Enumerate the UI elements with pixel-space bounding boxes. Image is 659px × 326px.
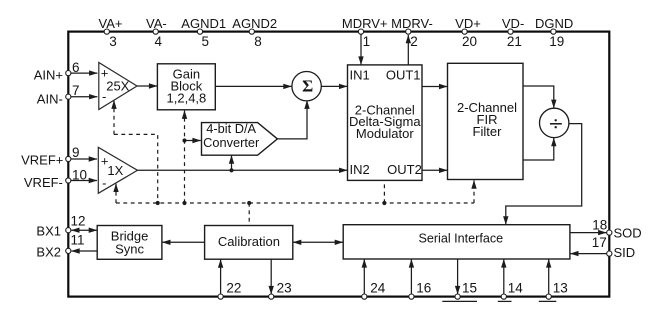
svg-text:17: 17 [592,235,607,250]
svg-text:8: 8 [254,34,262,49]
summer node [292,72,321,101]
svg-text:AGND2: AGND2 [232,16,277,31]
svg-text:4: 4 [155,34,163,49]
svg-text:22: 22 [226,281,241,296]
dashed wire calibration control to 1X [115,188,117,203]
svg-text:14: 14 [508,281,524,296]
pin 11 BX2 [36,232,84,259]
dashed wire calibration control to 25X [113,105,115,135]
dashed wire elbow to 25X branch [114,134,158,203]
svg-text:VD-: VD- [502,16,524,31]
wire calibration to pin 23 [270,259,272,294]
op-amp 25X [99,63,137,110]
wire D/A output to summer [277,101,307,139]
pin 6 AIN+ [34,60,80,83]
pin 17 SID [592,235,635,260]
pin 7 AIN- [37,83,80,107]
node junction on gain control line [182,138,186,142]
pin 2 MDRV- [391,16,433,49]
dashed wire control bus to FIR filter [473,185,475,203]
4-bit D/A converter U-DA [202,121,278,155]
wire pin 12 BX1 bidirectional to bridge sync [71,229,97,231]
wire VREF branch up to D/A converter bottom [231,155,233,170]
wire FIR top output to divider [523,86,554,108]
wire FIR bottom output to divider [523,138,554,160]
svg-text:MDRV-: MDRV- [391,16,433,31]
node junction on VREF line to D/A [229,168,233,172]
svg-text:15: 15 [462,281,477,296]
pin 16 [409,281,432,300]
pin 24 [362,281,386,300]
svg-text:11: 11 [71,232,85,247]
svg-text:AIN-: AIN- [37,92,63,107]
node junction control bus at 25X branch [156,201,160,205]
svg-text:24: 24 [370,281,386,296]
svg-text:IN1: IN1 [350,67,370,82]
wire pin 16 to serial interface [410,259,412,295]
wire pin 22 to calibration [220,260,222,296]
bridge sync block [97,226,162,260]
wire OUT2 to FIR filter [422,169,447,171]
svg-text:20: 20 [462,34,477,49]
wire 25X output to Gain Block [137,85,157,87]
pin 19 DGND [535,16,573,49]
svg-text:Sync: Sync [115,241,144,256]
svg-text:VA-: VA- [146,16,167,31]
svg-text:6: 6 [72,60,80,75]
wire pin 24 to serial interface [363,259,365,295]
svg-text:VREF+: VREF+ [21,152,63,167]
wire pin 17 SID into serial interface [570,253,606,255]
wire SOD to pin 18 [570,232,607,234]
svg-text:23: 23 [277,281,292,296]
overbar label pin 15 [442,300,477,302]
svg-text:19: 19 [549,34,564,49]
svg-text:4-bit D/A: 4-bit D/A [206,121,256,136]
pin 22 [218,281,241,300]
svg-text:SID: SID [614,245,636,260]
pin 9 VREF+ [21,145,79,167]
pin 21 VD- [502,16,524,49]
pin 1 MDRV+ [342,16,388,49]
svg-text:SOD: SOD [614,226,642,241]
pin 12 BX1 [36,214,85,239]
svg-text:Filter: Filter [473,124,503,139]
wire pin 1 MDRV+ into modulator [360,33,362,65]
svg-text:-: - [102,176,106,191]
svg-text:1X: 1X [107,163,123,178]
dashed wire control bus to calibration [248,203,250,225]
svg-text:BX2: BX2 [36,245,61,260]
op-amp 1X [98,147,137,193]
svg-text:DGND: DGND [535,16,573,31]
svg-text:AIN+: AIN+ [34,67,63,82]
svg-text:3: 3 [109,34,117,49]
svg-text:5: 5 [201,34,209,49]
svg-text:OUT1: OUT1 [386,67,421,82]
pin 8 AGND2 [232,16,277,49]
svg-text:Σ: Σ [302,76,313,95]
wire VREF+ to 1X [69,158,97,160]
svg-text:1,2,4,8: 1,2,4,8 [167,91,207,106]
svg-text:Serial Interface: Serial Interface [418,232,503,246]
pin 15 [455,281,477,300]
wire OUT1 to FIR filter [422,86,447,88]
svg-text:OUT2: OUT2 [387,162,422,177]
node junction control bus at gain branch [182,201,186,205]
svg-text:9: 9 [72,145,80,160]
svg-text:Converter: Converter [203,135,260,150]
wire serial interface to pin 15 [457,259,459,294]
wire bridge sync to pin 11 BX2 [71,250,97,252]
wire AIN+ to 25X [69,72,97,74]
serial interface block [343,225,570,259]
wire summer to IN1 [321,85,347,87]
pin 18 SOD [592,218,641,241]
overbar label pin 14 [498,300,512,302]
wire AIN- to 25X [69,96,97,98]
svg-text:AGND1: AGND1 [181,16,226,31]
chip boundary border [68,32,609,297]
pin 20 VD+ [455,16,481,49]
svg-text:10: 10 [72,167,87,182]
wire pin 13 to serial interface [548,259,550,295]
svg-text:7: 7 [72,83,80,98]
svg-text:13: 13 [553,281,568,296]
svg-text:18: 18 [592,218,607,233]
svg-text:VD+: VD+ [455,16,481,31]
wire MDRV- from modulator to pin 2 [407,35,409,65]
divider node [540,108,569,137]
pin 5 AGND1 [181,16,226,49]
svg-text:Modulator: Modulator [356,126,414,141]
wire control to D/A converter input [186,140,201,142]
calibration block [205,226,293,260]
svg-text:1: 1 [363,34,371,49]
svg-text:BX1: BX1 [36,224,61,239]
wire calibration to serial interface bidirectional [293,241,343,243]
wire calibration to bridge sync [162,241,204,243]
pin 14 [501,281,523,300]
2-channel FIR filter [448,63,524,179]
svg-text:IN2: IN2 [350,162,370,177]
overbar label pin 13 [539,300,557,302]
svg-text:VA+: VA+ [99,16,123,31]
dashed wire gain control vertical [184,114,186,203]
2-channel delta-sigma modulator [348,65,423,180]
wire Gain Block to summer [215,85,291,87]
pin 3 VA+ [99,16,123,49]
svg-text:25X: 25X [106,79,129,94]
svg-text:Calibration: Calibration [218,234,280,249]
svg-text:2: 2 [410,34,418,49]
wire 1X output to IN2 [138,169,348,171]
dashed wire control bus to modulator [383,181,385,203]
node junction control bus at modulator branch [382,201,386,205]
dashed wire main control bus horizontal [116,202,474,204]
wire pin 14 to serial interface [503,259,505,295]
svg-text:12: 12 [71,214,86,229]
pin 13 [546,281,568,300]
svg-text:VREF-: VREF- [24,175,63,190]
gain block [157,64,215,110]
svg-text:16: 16 [416,281,431,296]
node junction control bus at calibration branch [247,201,251,205]
pin 23 [269,281,292,300]
pin 4 VA- [146,16,167,49]
svg-text:21: 21 [507,34,522,49]
pin 10 VREF- [24,167,87,190]
wire VREF- to 1X [69,180,97,182]
svg-text:MDRV+: MDRV+ [342,16,388,31]
wire divider output to serial interface [506,124,582,225]
